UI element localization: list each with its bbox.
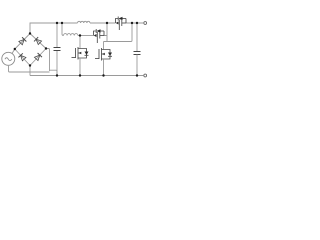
inductor L2 bbox=[64, 34, 78, 36]
output terminal plus bbox=[144, 22, 147, 25]
wire Q1 drain to rail node x107 bbox=[104, 23, 107, 42]
transistor Q1 sideways MOSFET at node N1 bbox=[94, 29, 105, 43]
diode D2 upper-right (points to top vertex) bbox=[34, 37, 41, 45]
diode D3 lower-left (points to left vertex) bbox=[18, 53, 26, 60]
diode D1 upper-left (points to top vertex) bbox=[19, 37, 26, 45]
bridge edge lower-left bbox=[15, 49, 30, 66]
inductor L1 bbox=[78, 21, 91, 23]
bridge edge lower-right bbox=[30, 49, 46, 66]
wire AC source to bridge left vertex bbox=[12, 49, 15, 54]
capacitor C1 plates bbox=[54, 48, 61, 51]
AC source V1 bbox=[2, 52, 15, 65]
wire bridge right vertex down bbox=[46, 49, 50, 72]
transistor Q2 low-side left MOSFET bbox=[72, 36, 89, 76]
capacitor C2 output bbox=[134, 23, 141, 76]
wire bottom rail bbox=[30, 75, 143, 77]
wire top rail left section bbox=[30, 23, 78, 34]
junction dots bridge vertices bbox=[14, 32, 48, 66]
wire top rail mid section bbox=[90, 22, 116, 24]
wire AC return bottom bbox=[9, 66, 50, 72]
transistor Q3 series MOSFET on top rail bbox=[116, 17, 127, 31]
wire joining AC return to cap line bbox=[50, 70, 58, 75]
bridge edge upper-right bbox=[30, 34, 46, 49]
diode D4 lower-right (points to right vertex) bbox=[34, 53, 42, 60]
wire capacitor C1 top lead bbox=[56, 23, 58, 48]
wire from node at x62 down to L2 bbox=[62, 23, 64, 36]
wire capacitor C1 bottom lead bbox=[56, 51, 58, 76]
bridge edge upper-left bbox=[15, 34, 30, 50]
junction dots bottom rail bbox=[56, 74, 138, 76]
output terminal minus bbox=[144, 74, 147, 77]
junction dots top rail bbox=[56, 22, 138, 24]
wire top rail right section bbox=[126, 22, 143, 24]
wire L2 to node N1 bbox=[78, 35, 94, 37]
transistor Q4 low-side right MOSFET bbox=[95, 42, 112, 76]
wire y41 loop to rail node x132 bbox=[104, 23, 133, 42]
wire bridge bottom vertex to bottom rail bbox=[29, 66, 31, 76]
junction dot node N1 bbox=[79, 34, 81, 36]
